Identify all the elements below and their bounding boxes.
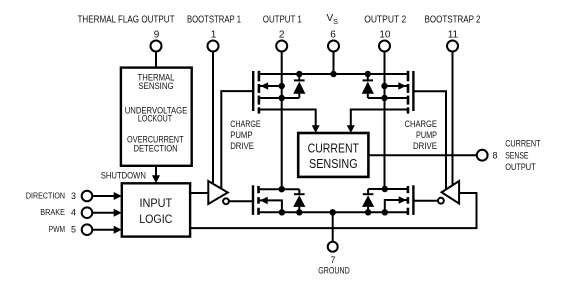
svg-text:2: 2 [279, 30, 285, 41]
driver A1 bubble [223, 198, 229, 204]
shutdown wire [155, 166, 157, 176]
svg-text:LOCKOUT: LOCKOUT [138, 114, 173, 124]
svg-text:SENSE: SENSE [505, 150, 528, 160]
svg-text:PWM: PWM [49, 224, 65, 234]
svg-text:8: 8 [492, 150, 497, 160]
svg-text:1: 1 [211, 30, 217, 41]
transistor Q2 sense stub to current sensing [351, 110, 408, 127]
junction dot rail-D2 [365, 71, 371, 77]
wire input logic to driver A2 (bottom run) [190, 193, 476, 228]
wire driver A2 to Q4 gate [413, 200, 438, 202]
thermal block [121, 68, 192, 166]
diode D1 (upper left) [293, 74, 305, 98]
svg-text:DRIVE: DRIVE [413, 141, 437, 151]
svg-text:SHUTDOWN: SHUTDOWN [101, 170, 146, 180]
charge pump drive wire left [221, 91, 253, 189]
svg-text:10: 10 [379, 30, 391, 41]
svg-text:4: 4 [71, 208, 76, 218]
svg-text:OUTPUT 2: OUTPUT 2 [364, 15, 406, 26]
current sensing text [308, 140, 359, 171]
transistor Q2 body arrow [398, 82, 406, 90]
svg-text:INPUT: INPUT [139, 198, 172, 210]
svg-text:PUMP: PUMP [230, 130, 252, 140]
junction dot OUT1 drain [279, 186, 285, 192]
charge pump drive label left [230, 119, 260, 151]
arrowhead PWM [114, 226, 122, 234]
pin 7 circle GROUND [328, 242, 338, 252]
pin 11 circle BOOTSTRAP 2 [447, 41, 458, 52]
junction dot OUT2 drain [382, 186, 388, 192]
svg-text:SENSING: SENSING [138, 81, 173, 91]
charge pump drive wire right [413, 91, 446, 189]
junction dot gnd D4 [365, 209, 371, 215]
wire pin9 to thermal block [155, 52, 157, 68]
svg-text:GROUND: GROUND [318, 265, 350, 275]
junction dot gnd tap [330, 209, 336, 215]
svg-text:9: 9 [154, 30, 160, 41]
svg-text:BOOTSTRAP 2: BOOTSTRAP 2 [425, 15, 481, 26]
pin 6 circle VS [328, 41, 339, 52]
pin 8 label CURRENT SENSE OUTPUT [505, 138, 541, 171]
current sensing block [298, 133, 368, 177]
transistor Q4 drain stub [368, 188, 408, 190]
transistor Q3 drain stub [259, 188, 300, 190]
junction dot rail-VS [330, 71, 336, 77]
svg-text:CHARGE: CHARGE [230, 119, 260, 129]
transistor Q1 gate bar (upper left) [252, 71, 254, 111]
transistor Q2 body stub [385, 85, 409, 87]
pin 6 label VS [327, 13, 339, 26]
diode D3 (lower left) [293, 189, 305, 212]
pin 4 circle BRAKE [82, 207, 93, 218]
VS rail wire [259, 73, 408, 75]
svg-text:CURRENT: CURRENT [308, 140, 359, 155]
transistor Q4 body arrow [399, 196, 407, 203]
svg-text:5: 5 [71, 225, 76, 235]
junction dot rail-D1 [296, 71, 302, 77]
svg-text:LOGIC: LOGIC [139, 214, 172, 226]
transistor Q4 gate bar (lower right) [412, 185, 414, 215]
junction dot OUT1 source [279, 95, 285, 101]
wire ground drop [332, 212, 334, 241]
driver A1 triangle [208, 181, 228, 204]
junction dot OUT1 body [279, 83, 285, 89]
svg-text:CHARGE: CHARGE [405, 119, 438, 129]
driver A2 triangle [442, 181, 460, 204]
sense arrowhead right [347, 125, 355, 133]
transistor Q3 body arrow [260, 197, 268, 205]
transistor Q1 source stub [259, 97, 299, 99]
wire OUTPUT1 net vertical [281, 52, 283, 190]
transistor Q1 body arrow [261, 82, 269, 90]
wire bootstrap1 to driver A1 [212, 52, 214, 185]
pin 1 circle BOOTSTRAP 1 [208, 41, 219, 52]
svg-text:SENSING: SENSING [309, 156, 358, 171]
pin 5 circle PWM [82, 224, 93, 235]
diode D4 (lower right) [362, 189, 374, 212]
sense arrowhead left [312, 125, 320, 133]
svg-text:OUTPUT 1: OUTPUT 1 [263, 15, 302, 26]
pin 10 circle OUTPUT 2 [379, 41, 390, 52]
wire PWM to input logic [92, 229, 114, 231]
junction dot OUT2 source [381, 95, 387, 101]
junction dot OUT2 body [381, 83, 387, 89]
pin 2 circle OUTPUT 1 [276, 41, 287, 52]
wire input logic to driver A1 [190, 192, 208, 194]
svg-text:S: S [333, 17, 338, 26]
transistor Q3 channel bar [257, 186, 260, 215]
transistor Q1 body stub [259, 85, 282, 87]
svg-text:DIRECTION: DIRECTION [26, 191, 65, 201]
svg-text:CURRENT: CURRENT [505, 138, 541, 148]
transistor Q1 sense stub to current sensing [259, 110, 316, 127]
transistor Q4 channel bar [407, 186, 410, 215]
transistor Q2 source stub [368, 97, 408, 99]
transistor Q3 body stub [259, 200, 282, 212]
svg-text:BOOTSTRAP 1: BOOTSTRAP 1 [187, 15, 241, 26]
wire DIRECTION to input logic [92, 195, 114, 197]
diode D2 (upper right) [362, 74, 374, 98]
svg-text:OUTPUT: OUTPUT [505, 162, 536, 172]
input logic text [139, 198, 172, 226]
wire OUTPUT2 net vertical [384, 52, 386, 190]
svg-text:PUMP: PUMP [416, 130, 437, 140]
wire BRAKE to input logic [92, 212, 114, 214]
charge pump drive label right [405, 119, 438, 151]
transistor Q3 gate bar (lower left) [252, 185, 254, 215]
wire bootstrap2 to driver A2 [452, 52, 454, 186]
wire VS to rail [333, 52, 335, 75]
junction dot gnd D3 [296, 209, 302, 215]
arrowhead DIRECTION [114, 192, 122, 200]
svg-text:BRAKE: BRAKE [40, 207, 65, 217]
arrowhead BRAKE [114, 209, 122, 217]
ground rail wire [259, 211, 409, 213]
junction dot gnd Q4 body [382, 209, 388, 215]
driver A2 bubble [438, 198, 444, 204]
transistor Q1 channel bar [258, 71, 261, 114]
wire current sensing to pin 8 [368, 154, 476, 156]
input logic block [122, 183, 190, 236]
svg-text:DETECTION: DETECTION [134, 143, 178, 153]
wire driver A1 to Q3 gate [229, 200, 253, 202]
pin 3 circle DIRECTION [82, 191, 93, 202]
svg-text:11: 11 [448, 30, 459, 41]
junction dot gnd Q3 body [279, 209, 285, 215]
transistor Q4 body stub [385, 200, 408, 212]
pin 8 circle CURRENT SENSE OUTPUT [477, 150, 488, 161]
thermal block text [125, 73, 188, 154]
svg-text:6: 6 [330, 30, 336, 41]
svg-text:3: 3 [71, 191, 76, 201]
svg-text:DRIVE: DRIVE [230, 141, 254, 151]
shutdown arrowhead [152, 175, 160, 183]
svg-text:THERMAL FLAG OUTPUT: THERMAL FLAG OUTPUT [78, 15, 175, 26]
transistor Q2 channel bar [407, 71, 410, 114]
transistor Q2 gate bar (upper right) [412, 71, 414, 111]
pin 9 circle THERMAL FLAG OUTPUT [151, 41, 162, 52]
svg-text:7: 7 [330, 255, 335, 265]
